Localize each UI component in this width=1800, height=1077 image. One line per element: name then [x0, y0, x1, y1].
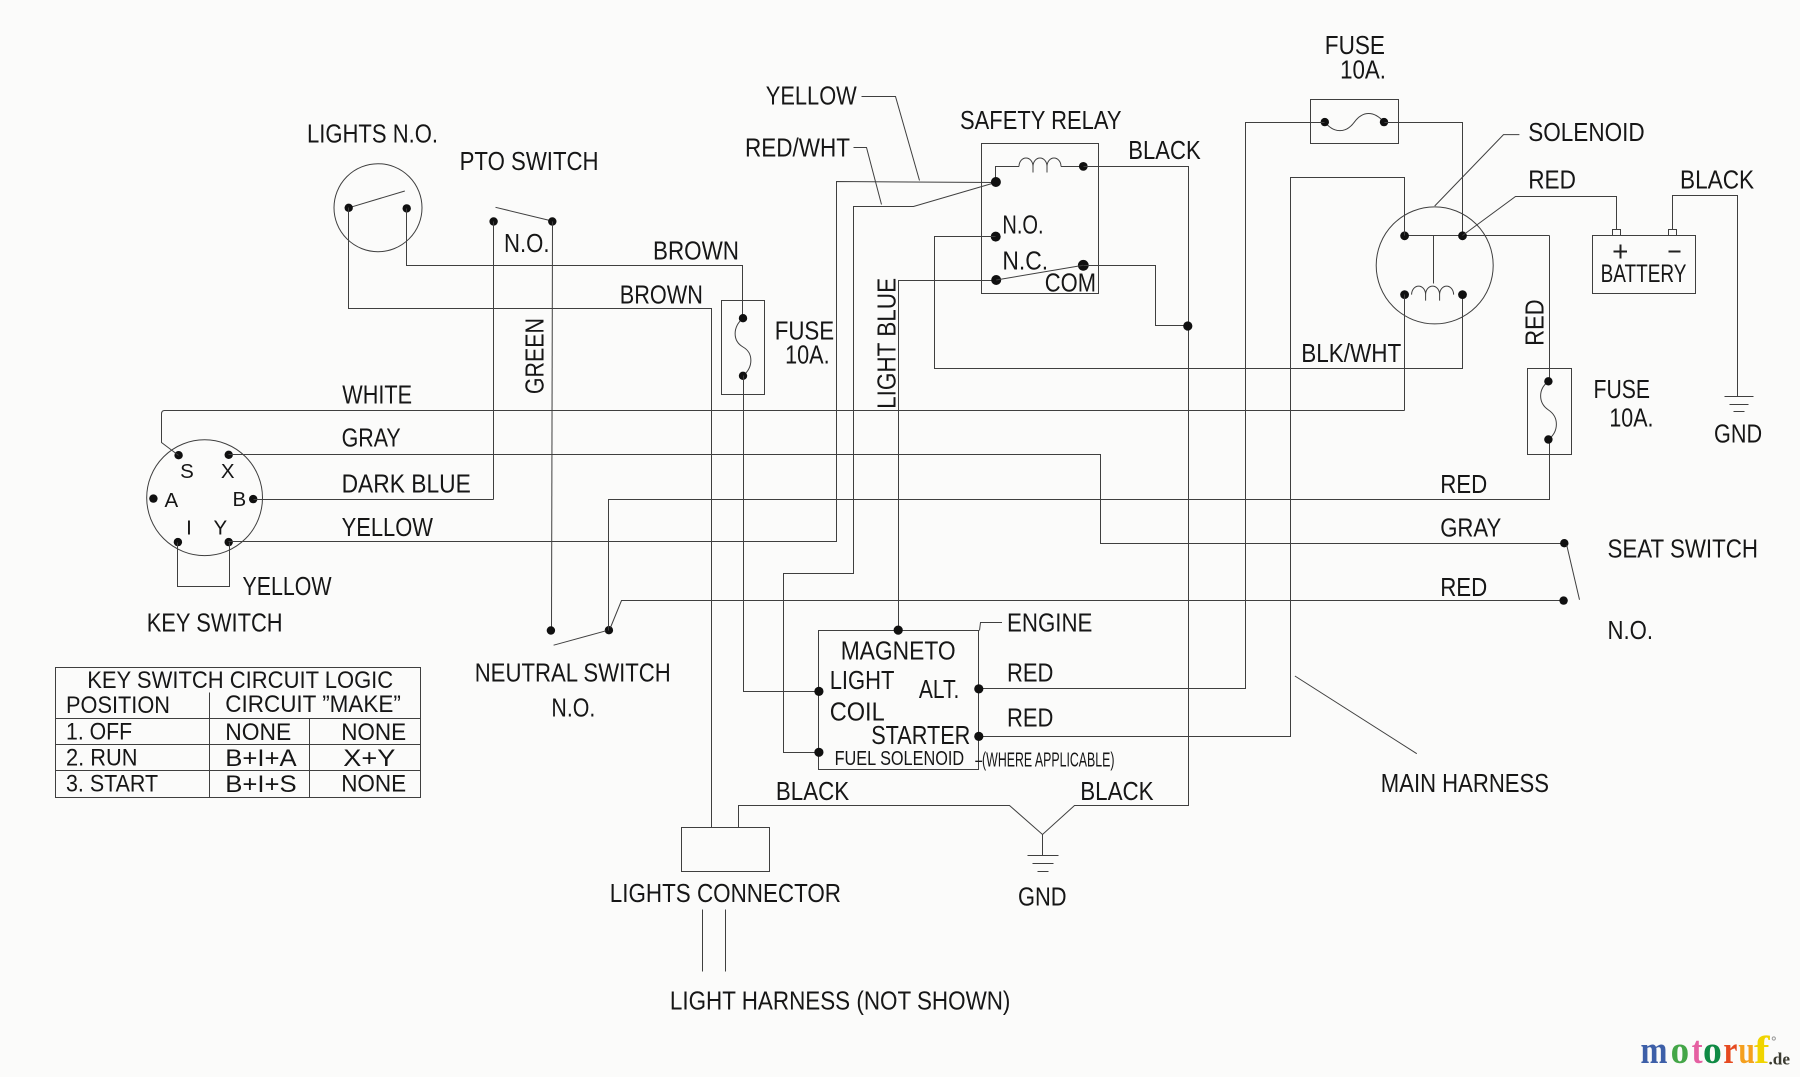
label LIGHT HARNESS [670, 988, 1011, 1016]
engine terminal starter [974, 732, 983, 741]
relay K1 coil [996, 158, 1084, 182]
switch LIGHTS N.O. body [334, 164, 422, 252]
table cell NONE c [341, 770, 406, 797]
label relay N.O. [1002, 212, 1043, 240]
label LIGHTS CONNECTOR [610, 880, 841, 908]
label ENGINE [1007, 610, 1092, 638]
table column line 2 [309, 719, 311, 798]
svg-text:X+Y: X+Y [343, 745, 395, 772]
label BROWN 1 [653, 238, 739, 266]
fuse F1 element [735, 318, 751, 376]
table cell X+Y [343, 745, 395, 772]
svg-text:RED: RED [1007, 705, 1053, 733]
table cell 1 OFF [66, 718, 132, 745]
svg-text:BATTERY: BATTERY [1601, 261, 1687, 288]
label WHERE APPLICABLE [975, 750, 1114, 772]
switch PTO blade [496, 207, 553, 221]
solenoid plunger [1433, 236, 1435, 284]
solenoid coil terminal left [1400, 290, 1409, 299]
label NEUTRAL N.O. [551, 694, 595, 722]
svg-text:3. START: 3. START [66, 770, 158, 797]
label FUSE F1 [775, 318, 835, 346]
switch PTO terminal 2 [548, 217, 556, 225]
ground GND bottom bars [1028, 856, 1059, 872]
label SOLENOID [1528, 119, 1645, 147]
lights connector box [682, 828, 770, 872]
svg-text:YELLOW: YELLOW [243, 573, 332, 601]
svg-text:GND: GND [1018, 884, 1067, 912]
switch LIGHTS N.O. blade [349, 191, 405, 208]
label RED battery [1528, 167, 1576, 195]
svg-text:RED: RED [1440, 574, 1487, 602]
key switch pin A [149, 494, 157, 502]
label F2 value 10A. [1340, 57, 1386, 85]
svg-text:BROWN: BROWN [620, 282, 703, 310]
label RED right upper [1440, 471, 1487, 499]
label FUEL SOLENOID [835, 748, 965, 770]
svg-text:A: A [165, 489, 179, 512]
relay K1 body [982, 144, 1099, 294]
label YELLOW net [766, 83, 857, 111]
svg-text:PTO SWITCH: PTO SWITCH [460, 148, 599, 176]
fuse F2 body [1311, 100, 1399, 144]
label GND bottom [1018, 884, 1067, 912]
svg-text:ENGINE: ENGINE [1007, 610, 1092, 638]
neutral switch blade [554, 631, 606, 645]
svg-text:RED: RED [1528, 167, 1576, 195]
svg-text:STARTER: STARTER [871, 722, 970, 750]
table header CIRCUIT MAKE [225, 691, 401, 718]
relay coil terminal left [991, 177, 1001, 187]
leader ENGINE [980, 623, 1003, 631]
ground GND right bars [1725, 397, 1754, 412]
wire fuse F2 to solenoid [1385, 123, 1463, 236]
fuse F1 terminal top [739, 314, 747, 322]
label LIGHTS N.O. [307, 121, 438, 149]
svg-text:S: S [180, 460, 194, 483]
label BATTERY [1601, 261, 1687, 288]
table header POSITION [66, 692, 170, 719]
wire fuse F1 to engine coil [744, 376, 819, 692]
leader SOLENOID [1435, 135, 1520, 206]
wire GRAY [229, 455, 1565, 544]
label SEAT SWITCH [1608, 536, 1759, 564]
label SEAT N.O. [1608, 617, 1654, 645]
label RED vertical [1522, 299, 1550, 345]
svg-text:KEY SWITCH: KEY SWITCH [147, 610, 283, 638]
label RED right lower [1440, 574, 1487, 602]
label DARK BLUE [342, 470, 471, 498]
svg-text:GRAY: GRAY [1440, 515, 1501, 543]
fuse F3 body [1528, 369, 1572, 455]
fuse F1 terminal bottom [739, 372, 747, 380]
label BLACK right [1080, 778, 1153, 806]
wire BLACK relay to gnd bus [739, 167, 1189, 835]
label YELLOW jumper [243, 573, 332, 601]
svg-text:B+I+S: B+I+S [225, 771, 296, 798]
key switch pin B [249, 495, 257, 503]
svg-text:GND: GND [1714, 420, 1762, 448]
svg-text:LIGHTS N.O.: LIGHTS N.O. [307, 121, 438, 149]
light harness stub 1 [702, 910, 704, 972]
svg-text:NEUTRAL SWITCH: NEUTRAL SWITCH [475, 660, 671, 688]
table row line 3 [56, 770, 421, 772]
svg-text:r: r [1723, 1029, 1737, 1072]
engine terminal magneto [894, 626, 903, 635]
svg-text:DARK BLUE: DARK BLUE [342, 470, 471, 498]
label BLK/WHT [1301, 340, 1401, 368]
table cell B+I+A [225, 745, 296, 772]
solenoid coil terminal right [1458, 290, 1467, 299]
table cell 2 RUN [66, 744, 138, 771]
relay coil terminal right [1079, 162, 1088, 171]
label GRAY right [1440, 515, 1501, 543]
svg-text:m: m [1641, 1029, 1668, 1072]
table column line 1 [209, 693, 211, 798]
table cell NONE b [341, 719, 406, 746]
key switch pin S [174, 451, 182, 459]
junction COM-black bus [1183, 321, 1192, 330]
wire LIGHT BLUE relay NC to engine [899, 281, 997, 631]
label MAIN HARNESS [1381, 770, 1549, 798]
wire BLK/WHT solenoid to white [1404, 295, 1406, 411]
label RED/WHT net [745, 135, 850, 163]
svg-text:SOLENOID: SOLENOID [1528, 119, 1645, 147]
svg-text:GRAY: GRAY [342, 425, 401, 453]
svg-text:B: B [233, 488, 247, 511]
svg-text:LIGHTS CONNECTOR: LIGHTS CONNECTOR [610, 880, 841, 908]
svg-text:1. OFF: 1. OFF [66, 718, 132, 745]
light harness stub 2 [725, 910, 727, 972]
svg-text:NONE: NONE [225, 719, 291, 746]
label F3 value 10A. [1609, 405, 1653, 433]
svg-text:10A.: 10A. [1340, 57, 1386, 85]
svg-text:BLACK: BLACK [1680, 167, 1754, 195]
svg-text:WHITE: WHITE [342, 382, 412, 410]
key switch pin Y [225, 538, 233, 546]
label F1 value 10A. [785, 342, 830, 370]
wire YELLOW jumper I-Y [178, 543, 230, 587]
table cell NONE a [225, 719, 291, 746]
svg-text:B+I+A: B+I+A [225, 745, 296, 772]
svg-text:RED: RED [1440, 471, 1487, 499]
fuse F3 element [1541, 381, 1557, 439]
battery plus sign [1614, 245, 1628, 259]
battery BT1 body [1593, 236, 1696, 294]
svg-text:MAIN HARNESS: MAIN HARNESS [1381, 770, 1549, 798]
ground GND bottom stem [1042, 834, 1044, 855]
label GREEN [522, 318, 550, 394]
wire RED/WHT to fuel solenoid [784, 183, 996, 753]
pin label S [180, 460, 194, 483]
svg-text:LIGHT BLUE: LIGHT BLUE [874, 278, 902, 409]
switch LIGHTS terminal 2 [403, 204, 411, 212]
table row line 1 [56, 718, 421, 720]
table row line 2 [56, 744, 421, 746]
label relay N.C. [1002, 247, 1048, 275]
svg-text:NONE: NONE [341, 719, 406, 746]
svg-text:RED: RED [1007, 660, 1053, 688]
seat switch terminal 2 [1559, 596, 1567, 604]
svg-text:Y: Y [214, 517, 228, 540]
label BLACK battery [1680, 167, 1754, 195]
svg-text:–(WHERE APPLICABLE): –(WHERE APPLICABLE) [975, 750, 1114, 772]
svg-text:N.O.: N.O. [1002, 212, 1043, 240]
svg-text:LIGHT HARNESS (NOT SHOWN): LIGHT HARNESS (NOT SHOWN) [670, 988, 1011, 1016]
seat switch blade [1567, 545, 1580, 600]
wire GREEN pto to neutral [552, 222, 553, 631]
fuse F3 terminal top [1544, 377, 1552, 385]
solenoid coil winding [1412, 286, 1454, 301]
wire DARK BLUE [254, 499, 494, 501]
svg-text:10A.: 10A. [785, 342, 830, 370]
leader RED/WHT [854, 148, 882, 205]
fuse F1 body [722, 301, 765, 395]
label BROWN 2 [620, 282, 703, 310]
label ALT. [919, 676, 959, 704]
table cell B+I+S [225, 771, 296, 798]
wire relay COM to bus [1084, 266, 1189, 326]
svg-text:N.O.: N.O. [504, 230, 550, 258]
seat switch terminal 1 [1560, 539, 1568, 547]
table cell 3 START [66, 770, 158, 797]
svg-text:COM: COM [1045, 270, 1096, 298]
label FUSE F3 [1594, 376, 1651, 404]
relay blade [996, 265, 1083, 280]
pin label A [165, 489, 179, 512]
wire BLACK battery to gnd [1673, 196, 1738, 397]
svg-text:BLACK: BLACK [1128, 137, 1200, 165]
relay terminal N.C. [991, 275, 1001, 285]
wire RED solenoid to battery [1463, 197, 1617, 236]
label relay COM [1045, 270, 1096, 298]
label RED alt wire [1007, 660, 1053, 688]
logo motoruf.de [1641, 1029, 1791, 1072]
battery minus sign [1669, 251, 1681, 253]
label LIGHT [830, 667, 895, 695]
label YELLOW [342, 514, 433, 542]
fuse F2 element [1325, 114, 1384, 131]
wire relay NO to solenoid coil [935, 237, 1463, 369]
svg-text:o: o [1703, 1029, 1722, 1072]
svg-text:I: I [186, 517, 192, 540]
svg-text:u: u [1738, 1029, 1755, 1072]
neutral switch terminal 1 [547, 626, 555, 634]
table KEY SWITCH CIRCUIT LOGIC border [56, 668, 421, 798]
engine box [819, 631, 979, 770]
label LIGHT BLUE [874, 278, 902, 409]
pin label Y [214, 517, 228, 540]
svg-text:ALT.: ALT. [919, 676, 959, 704]
label FUSE F2 [1325, 32, 1385, 60]
fuse F3 terminal bottom [1544, 435, 1552, 443]
solenoid terminal top right [1458, 231, 1467, 240]
svg-text:FUEL SOLENOID: FUEL SOLENOID [835, 748, 965, 770]
solenoid contact bar [1405, 235, 1550, 237]
svg-text:NONE: NONE [341, 770, 406, 797]
label BLACK relay [1128, 137, 1200, 165]
label WHITE [342, 382, 412, 410]
pin label X [221, 460, 235, 483]
battery terminal post - [1669, 230, 1677, 236]
svg-text:CIRCUIT ”MAKE”: CIRCUIT ”MAKE” [225, 691, 401, 718]
solenoid body [1376, 207, 1493, 324]
pin label I [186, 517, 192, 540]
label PTO SWITCH [460, 148, 599, 176]
fuse F2 terminal left [1321, 118, 1329, 126]
svg-text:YELLOW: YELLOW [342, 514, 433, 542]
label BLACK left [776, 778, 849, 806]
wire WHITE [162, 411, 1405, 456]
switch PTO terminal 1 [489, 217, 497, 225]
label MAGNETO [841, 638, 956, 666]
svg-text:BLK/WHT: BLK/WHT [1301, 340, 1401, 368]
svg-text:10A.: 10A. [1609, 405, 1653, 433]
svg-text:KEY SWITCH CIRCUIT LOGIC: KEY SWITCH CIRCUIT LOGIC [87, 667, 393, 694]
switch LIGHTS terminal 1 [345, 204, 353, 212]
wire STARTER red solenoid [979, 178, 1405, 737]
leader YELLOW [862, 97, 920, 181]
engine terminal alt [974, 684, 983, 693]
svg-text:X: X [221, 460, 235, 483]
wire YELLOW key to relay [229, 182, 996, 542]
wire BROWN lights to fuse [407, 209, 743, 319]
svg-text:SEAT SWITCH: SEAT SWITCH [1608, 536, 1759, 564]
wire PTO to dark blue node [493, 222, 495, 500]
svg-text:N.O.: N.O. [1608, 617, 1654, 645]
label RED starter wire [1007, 705, 1053, 733]
svg-text:POSITION: POSITION [66, 692, 170, 719]
label PTO N.O. [504, 230, 550, 258]
solenoid terminal top left [1400, 231, 1409, 240]
relay terminal COM [1078, 260, 1089, 271]
svg-text:BLACK: BLACK [776, 778, 849, 806]
svg-text:MAGNETO: MAGNETO [841, 638, 956, 666]
label GRAY [342, 425, 401, 453]
svg-text:GREEN: GREEN [522, 318, 550, 394]
engine terminal fuel solenoid [814, 748, 823, 757]
key switch pin X [225, 451, 233, 459]
svg-text:N.C.: N.C. [1002, 247, 1048, 275]
label KEY SWITCH [147, 610, 283, 638]
label NEUTRAL SWITCH [475, 660, 671, 688]
relay terminal N.O. [991, 232, 1001, 242]
svg-text:FUSE: FUSE [1594, 376, 1651, 404]
label STARTER [871, 722, 970, 750]
fuse F2 terminal right [1380, 118, 1388, 126]
key switch body [147, 440, 263, 556]
svg-text:BROWN: BROWN [653, 238, 739, 266]
wire RED neutral to fuse F3 [609, 440, 1550, 631]
wire RED fuse F2 to engine alt [979, 123, 1325, 689]
engine terminal light coil [814, 687, 823, 696]
table title [87, 667, 393, 694]
battery terminal post + [1613, 230, 1621, 236]
leader MAIN HARNESS [1295, 676, 1417, 754]
wire solenoid to fuse F3 [1549, 236, 1551, 382]
svg-text:N.O.: N.O. [551, 694, 595, 722]
svg-text:RED/WHT: RED/WHT [745, 135, 850, 163]
wire lights to connector [349, 208, 712, 828]
svg-text:2. RUN: 2. RUN [66, 744, 138, 771]
svg-text:BLACK: BLACK [1080, 778, 1153, 806]
label COIL [830, 699, 885, 727]
svg-text:.de: .de [1769, 1050, 1791, 1069]
svg-text:RED: RED [1522, 299, 1550, 345]
svg-text:SAFETY RELAY: SAFETY RELAY [960, 107, 1122, 135]
pin label B [233, 488, 247, 511]
svg-text:o: o [1671, 1029, 1690, 1072]
key switch pin I [174, 538, 182, 546]
svg-text:YELLOW: YELLOW [766, 83, 857, 111]
svg-text:t: t [1692, 1029, 1703, 1072]
wire neutral to seat [611, 601, 1564, 628]
label SAFETY RELAY [960, 107, 1122, 135]
neutral switch terminal 2 [605, 626, 613, 634]
svg-text:LIGHT: LIGHT [830, 667, 895, 695]
label GND right [1714, 420, 1762, 448]
